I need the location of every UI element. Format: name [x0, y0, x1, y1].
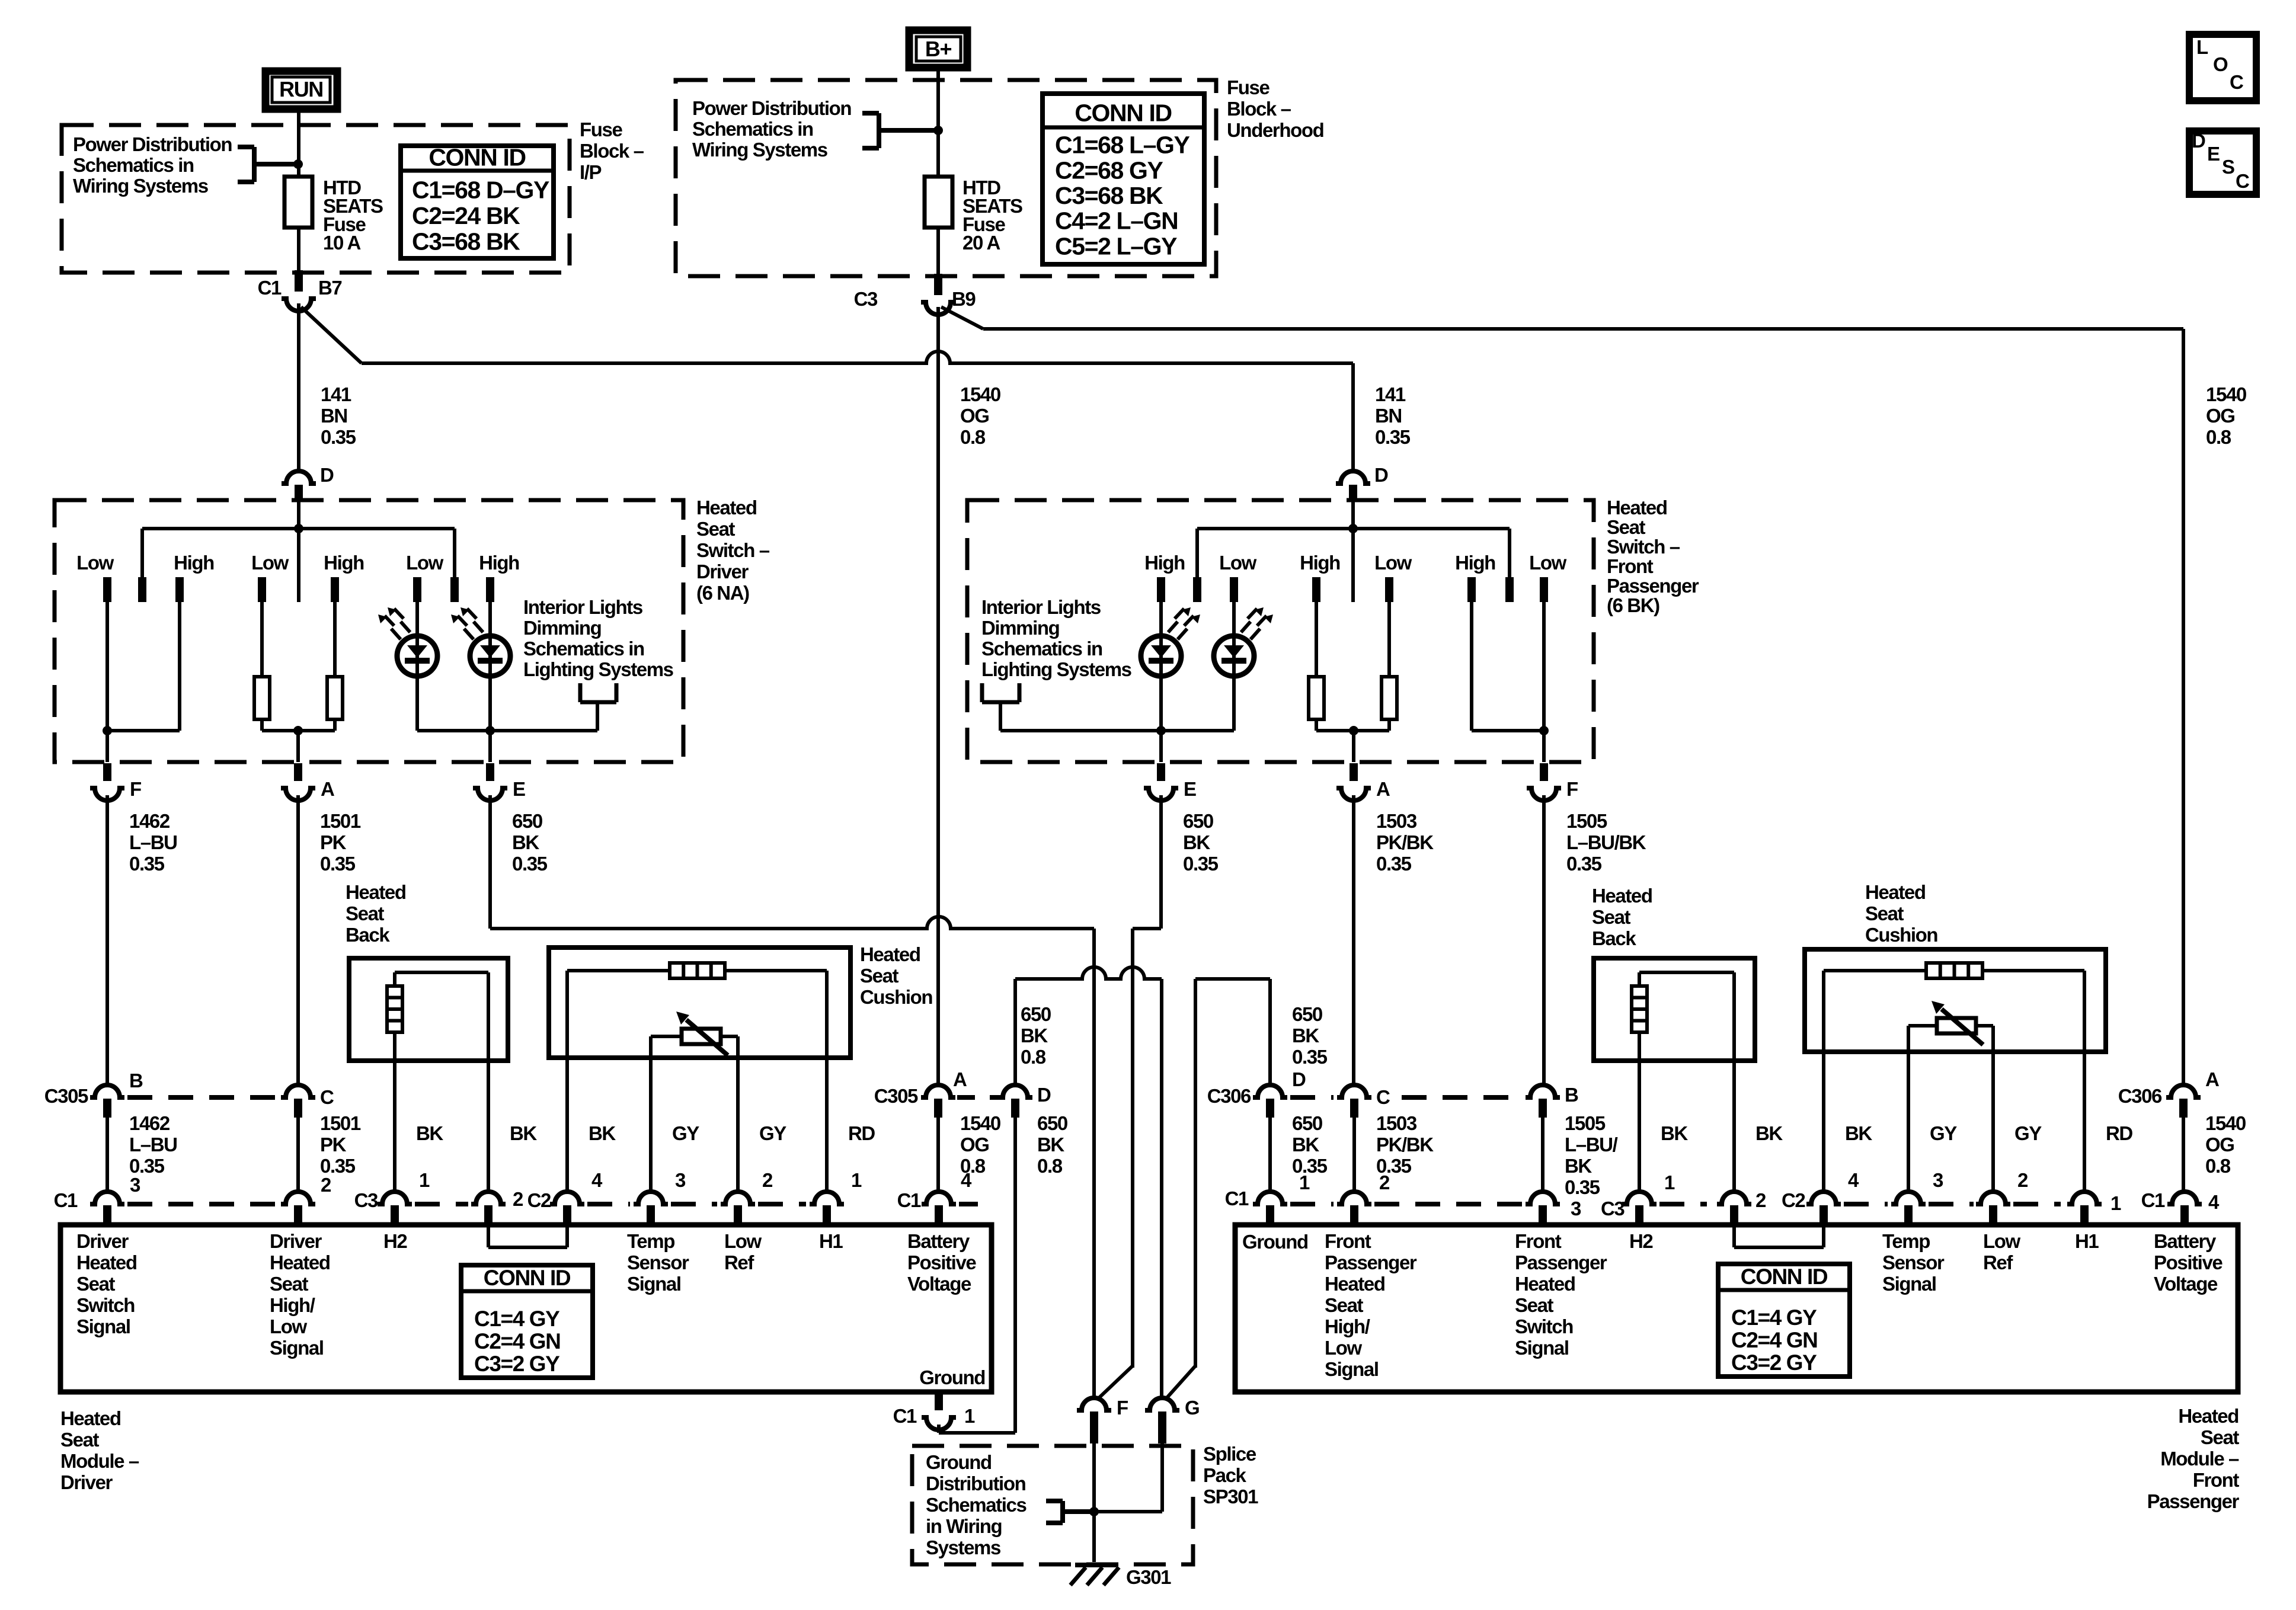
svg-text:Signal: Signal — [627, 1273, 681, 1295]
svg-text:Passenger: Passenger — [2147, 1490, 2240, 1512]
node join F (passenger) — [1539, 726, 1549, 735]
wire branch B9 diagonal — [941, 307, 983, 329]
svg-text:SP301: SP301 — [1203, 1486, 1258, 1507]
svg-text:S: S — [2222, 156, 2234, 178]
svg-text:Switch: Switch — [1515, 1315, 1573, 1337]
wire E drop (passenger) — [1159, 731, 1163, 762]
svg-text:PK: PK — [320, 1134, 347, 1156]
svg-text:C2=24 BK: C2=24 BK — [412, 202, 520, 229]
connector row passenger module cups — [1253, 1192, 1287, 1204]
bracket to power distribution note (left) — [252, 147, 257, 182]
svg-text:Signal: Signal — [1882, 1273, 1936, 1295]
connector F switch out (passenger) — [1540, 763, 1548, 781]
fuse F1 HTD SEATS 10A — [284, 177, 312, 228]
svg-text:Positive: Positive — [2154, 1251, 2223, 1273]
svg-text:20 A: 20 A — [962, 232, 1000, 254]
svg-text:Splice: Splice — [1203, 1443, 1256, 1465]
svg-text:1501: 1501 — [320, 810, 361, 832]
svg-text:BN: BN — [321, 405, 347, 427]
svg-text:O: O — [2213, 53, 2228, 75]
svg-text:Lighting Systems: Lighting Systems — [523, 658, 673, 680]
connector row driver module cups — [90, 1192, 124, 1204]
svg-text:BK: BK — [1021, 1025, 1048, 1046]
svg-text:Schematics in: Schematics in — [692, 118, 813, 140]
wire 141 BN passenger branch (horizontal) — [362, 351, 1353, 363]
svg-text:Signal: Signal — [76, 1315, 130, 1337]
svg-text:Fuse: Fuse — [580, 119, 622, 140]
wire H1 to module (driver) — [825, 1058, 829, 1191]
svg-text:Heated: Heated — [76, 1251, 137, 1273]
wire 141 BN passenger drop — [1351, 363, 1355, 471]
wire seat back H2 to module (passenger) — [1638, 1061, 1641, 1191]
svg-text:C4=2 L–GN: C4=2 L–GN — [1055, 207, 1178, 235]
wire F drop (passenger) — [1542, 731, 1546, 762]
svg-text:G301: G301 — [1126, 1566, 1171, 1588]
svg-text:Schematics in: Schematics in — [523, 638, 644, 660]
wire E drop (driver) — [488, 731, 492, 762]
node join F (driver) — [103, 726, 112, 735]
svg-text:Front: Front — [2193, 1469, 2240, 1491]
svg-text:CONN ID: CONN ID — [1075, 100, 1171, 127]
wire low ref to module (passenger) — [1991, 1052, 1995, 1191]
svg-text:Heated: Heated — [1592, 885, 1652, 907]
svg-text:1540: 1540 — [960, 383, 1000, 405]
svg-text:F: F — [1566, 778, 1578, 800]
switch contact stubs (passenger) — [1157, 577, 1165, 602]
wire 650 BK from C305 D down — [1013, 1118, 1017, 1433]
heating element seat cushion (passenger) — [1926, 963, 1982, 978]
svg-text:Systems: Systems — [926, 1537, 1000, 1558]
svg-text:Interior Lights: Interior Lights — [523, 596, 642, 618]
svg-text:B: B — [129, 1070, 143, 1092]
svg-text:CONN ID: CONN ID — [484, 1266, 571, 1290]
svg-text:C306: C306 — [2118, 1085, 2162, 1107]
wire 1540 OG to driver module — [936, 1118, 940, 1191]
svg-text:Block –: Block – — [580, 140, 644, 162]
svg-text:PK: PK — [320, 831, 347, 853]
svg-text:1540: 1540 — [2205, 1112, 2246, 1134]
wire 650 BK passenger switch ground — [1159, 795, 1163, 929]
heated seat cushion box (driver) — [549, 948, 850, 1058]
svg-text:650: 650 — [1183, 810, 1213, 832]
connector C306 pin C — [1337, 1085, 1371, 1097]
svg-text:High: High — [174, 552, 214, 574]
connector D (heated seat switch driver) — [282, 471, 316, 484]
svg-text:Seat: Seat — [860, 965, 899, 987]
wire contact 5 to join (passenger) — [1470, 602, 1473, 731]
svg-text:in Wiring: in Wiring — [926, 1515, 1002, 1537]
wire 1462 to module — [105, 1118, 109, 1191]
svg-text:C1: C1 — [897, 1189, 921, 1211]
svg-text:C: C — [2236, 170, 2249, 192]
svg-text:Low: Low — [76, 552, 114, 574]
wire contact 6 (driver high LED) — [488, 602, 492, 636]
bracket interior lights dimming (driver) — [578, 683, 583, 702]
svg-text:C1: C1 — [54, 1189, 78, 1211]
svg-text:Seat: Seat — [60, 1429, 100, 1451]
svg-text:C3: C3 — [854, 288, 878, 310]
svg-text:Low: Low — [1325, 1337, 1363, 1359]
svg-text:H2: H2 — [383, 1230, 407, 1252]
wire 1540 OG passenger drop (right edge) — [2182, 329, 2185, 1085]
wire A drop (driver) — [296, 731, 300, 762]
wire join E (driver) — [417, 729, 597, 732]
svg-text:0.35: 0.35 — [512, 853, 548, 875]
svg-text:Back: Back — [1592, 927, 1636, 949]
svg-text:C3=68 BK: C3=68 BK — [412, 228, 520, 255]
wire 1540 OG to passenger module — [2182, 1118, 2185, 1191]
svg-text:C5=2 L–GY: C5=2 L–GY — [1055, 232, 1177, 260]
svg-text:D: D — [1292, 1068, 1306, 1090]
svg-text:C3=2 GY: C3=2 GY — [1731, 1350, 1817, 1375]
svg-text:G: G — [1185, 1397, 1199, 1419]
svg-text:C: C — [320, 1086, 334, 1108]
svg-text:High/: High/ — [1325, 1315, 1370, 1337]
node join A (passenger) — [1349, 726, 1358, 735]
svg-text:C1: C1 — [1225, 1188, 1249, 1209]
connector A switch out (driver) — [294, 763, 302, 781]
connector C305 pin B — [90, 1085, 124, 1097]
svg-text:0.8: 0.8 — [1037, 1155, 1063, 1177]
svg-text:Heated: Heated — [696, 497, 757, 518]
svg-text:1503: 1503 — [1376, 1112, 1417, 1134]
svg-text:C2=4 GN: C2=4 GN — [474, 1329, 560, 1353]
svg-text:F: F — [1117, 1397, 1128, 1419]
svg-text:0.35: 0.35 — [1565, 1176, 1600, 1198]
LED driver low indicator — [397, 636, 437, 676]
svg-text:L–BU: L–BU — [129, 1134, 177, 1156]
wire 650 module D horizontal (driver) — [1015, 967, 1162, 979]
svg-text:C1=68 D–GY: C1=68 D–GY — [412, 177, 549, 204]
wire 1501 PK (driver) — [296, 795, 300, 1085]
svg-text:C3: C3 — [354, 1189, 378, 1211]
node switch bus junction (driver) — [294, 524, 303, 533]
svg-text:Seat: Seat — [1515, 1294, 1554, 1316]
wire 650 passenger module loop — [1268, 979, 1272, 1085]
svg-text:Power Distribution: Power Distribution — [692, 97, 851, 119]
svg-text:C2=68 GY: C2=68 GY — [1055, 156, 1163, 184]
wire cushion loop (driver) — [567, 969, 670, 972]
svg-text:2: 2 — [321, 1174, 331, 1196]
wire contact 6 to join (passenger) — [1542, 602, 1546, 731]
wire switch pole feed (passenger) — [1351, 500, 1355, 602]
heating element seat back (passenger) — [1632, 986, 1647, 1032]
svg-text:4: 4 — [2208, 1191, 2220, 1213]
svg-text:B7: B7 — [318, 277, 341, 299]
svg-text:0.35: 0.35 — [1376, 853, 1412, 875]
svg-text:Cushion: Cushion — [860, 986, 932, 1008]
svg-text:L: L — [2196, 36, 2208, 58]
svg-text:E: E — [1184, 778, 1196, 800]
LOC reference box — [2189, 34, 2256, 101]
svg-text:Interior Lights: Interior Lights — [981, 596, 1101, 618]
fuse block I/P dashed box — [62, 125, 570, 273]
svg-text:GY: GY — [1930, 1122, 1957, 1144]
svg-text:A: A — [1376, 778, 1390, 800]
svg-text:Battery: Battery — [907, 1230, 970, 1252]
svg-text:Switch –: Switch – — [696, 539, 770, 561]
svg-text:1505: 1505 — [1565, 1112, 1606, 1134]
svg-text:Seat: Seat — [1592, 906, 1631, 928]
conn id table (fuse block underhood) — [1043, 94, 1204, 264]
wire 1505 L-BU/BK (passenger) — [1542, 795, 1546, 1085]
svg-text:B+: B+ — [925, 37, 952, 61]
wire 1540 OG driver feed (B9 down to C305 A) — [936, 307, 940, 1085]
svg-text:1540: 1540 — [960, 1112, 1000, 1134]
wire element low side (passenger back) — [1638, 1032, 1641, 1061]
svg-text:3: 3 — [1571, 1198, 1581, 1219]
bracket ground distribution note — [1060, 1501, 1065, 1523]
svg-text:Ground: Ground — [919, 1366, 985, 1388]
svg-text:Low: Low — [1219, 552, 1257, 574]
svg-text:I/P: I/P — [580, 161, 602, 183]
heated seat switch passenger dashed box — [967, 500, 1594, 762]
svg-text:Heated: Heated — [1607, 497, 1667, 518]
svg-text:Sensor: Sensor — [627, 1251, 689, 1273]
wire seat back return to module — [487, 1061, 490, 1191]
svg-text:BK: BK — [1183, 831, 1210, 853]
svg-text:10 A: 10 A — [323, 232, 360, 254]
svg-text:D: D — [1037, 1084, 1051, 1106]
svg-text:2: 2 — [513, 1188, 523, 1210]
wire B+ to HTD SEATS fuse 2 — [936, 71, 940, 178]
DESC reference box — [2189, 131, 2256, 194]
svg-text:Seat: Seat — [2201, 1426, 2240, 1448]
svg-text:2: 2 — [1379, 1172, 1390, 1193]
svg-text:1: 1 — [851, 1169, 862, 1191]
wire element low side (driver back) — [393, 1032, 396, 1061]
connector F splice pack — [1077, 1398, 1111, 1410]
wire thermistor legs (driver) — [651, 1035, 682, 1038]
svg-text:Back: Back — [346, 924, 390, 946]
svg-text:Low: Low — [270, 1315, 308, 1337]
heated seat back box (passenger) — [1594, 958, 1755, 1061]
connector C305 pin A — [921, 1085, 955, 1097]
wire temp sensor signal to module — [649, 1058, 653, 1191]
svg-text:BK: BK — [510, 1122, 537, 1144]
node junction on B+ feed — [933, 126, 943, 135]
wire contact 4 (driver high) — [333, 602, 337, 677]
svg-text:Passenger: Passenger — [1515, 1251, 1607, 1273]
svg-text:0.35: 0.35 — [1292, 1046, 1328, 1068]
wire 1501 to module — [296, 1118, 300, 1191]
svg-text:650: 650 — [512, 810, 542, 832]
wire 650 passenger module diag to splice G — [1165, 1366, 1195, 1400]
node junction on RUN feed — [293, 159, 303, 169]
svg-text:0.8: 0.8 — [1021, 1046, 1046, 1068]
svg-text:Low: Low — [251, 552, 289, 574]
svg-text:650: 650 — [1292, 1003, 1322, 1025]
svg-text:L–BU/: L–BU/ — [1565, 1134, 1618, 1156]
heating element seat back (driver) — [387, 986, 402, 1032]
svg-text:PK/BK: PK/BK — [1376, 1134, 1434, 1156]
svg-text:High/: High/ — [270, 1294, 315, 1316]
conn id table (driver module) — [461, 1265, 593, 1378]
connector C3-B9 (fuse block underhood) — [934, 274, 942, 295]
jumper H2 loop inside driver module — [487, 1225, 490, 1247]
svg-text:PK/BK: PK/BK — [1376, 831, 1434, 853]
connector G splice pack — [1145, 1398, 1179, 1410]
wire thermistor legs (passenger) — [1908, 1024, 1937, 1028]
heated seat cushion box (passenger) — [1805, 949, 2106, 1052]
wire 650 driver ground drop to splice F — [1092, 929, 1096, 1400]
svg-text:Switch: Switch — [76, 1294, 135, 1316]
svg-text:C: C — [2230, 71, 2243, 93]
svg-text:High: High — [1455, 552, 1495, 574]
LED passenger high indicator — [1141, 636, 1181, 676]
heating element seat cushion (driver) — [670, 963, 725, 978]
svg-text:2: 2 — [1755, 1189, 1766, 1211]
svg-text:C1: C1 — [2141, 1189, 2165, 1211]
connector A switch out (passenger) — [1350, 763, 1358, 781]
connector C306 pin D — [1253, 1085, 1287, 1097]
dash line C305 B-C — [127, 1095, 277, 1100]
svg-text:Heated: Heated — [1865, 881, 1926, 903]
switch contact stubs (driver) — [103, 577, 111, 602]
wire join A (driver) — [262, 729, 335, 732]
svg-text:L–BU: L–BU — [129, 831, 177, 853]
LED driver high indicator — [470, 636, 510, 676]
svg-text:GY: GY — [759, 1122, 786, 1144]
svg-text:Seat: Seat — [1607, 516, 1646, 538]
heated seat module front passenger box — [1235, 1225, 2238, 1392]
connector C306 pin A — [2166, 1085, 2201, 1097]
wire seat back return to module (passenger) — [1732, 1061, 1736, 1191]
svg-text:2: 2 — [762, 1169, 773, 1191]
wire 650 BK driver switch ground — [488, 795, 492, 929]
svg-text:0.35: 0.35 — [1183, 853, 1219, 875]
svg-text:0.8: 0.8 — [960, 426, 986, 448]
svg-text:Signal: Signal — [1515, 1337, 1569, 1359]
svg-text:141: 141 — [1375, 383, 1406, 405]
wire contact 1 (passenger high LED) — [1159, 602, 1163, 636]
svg-text:BK: BK — [1292, 1025, 1319, 1046]
wire 650 driver switch ground horizontal — [490, 917, 1094, 929]
svg-text:Seat: Seat — [270, 1273, 309, 1295]
svg-text:1505: 1505 — [1566, 810, 1607, 832]
svg-text:Positive: Positive — [907, 1251, 976, 1273]
wire contact 5 (driver low LED) — [415, 602, 419, 636]
svg-text:L–BU/BK: L–BU/BK — [1566, 831, 1646, 853]
svg-text:Cushion: Cushion — [1865, 924, 1937, 946]
svg-text:Power Distribution: Power Distribution — [73, 133, 232, 155]
svg-text:Module –: Module – — [2160, 1448, 2239, 1470]
svg-text:BK: BK — [1037, 1134, 1064, 1156]
svg-text:650: 650 — [1292, 1112, 1322, 1134]
wire join F (passenger) — [1472, 729, 1544, 732]
wire contact 1 to join (driver low) — [105, 602, 109, 731]
wire 1505 to module — [1541, 1118, 1544, 1191]
wire seat back loop (driver) — [393, 972, 396, 986]
wire cushion pin4 to module (passenger) — [1822, 1052, 1825, 1191]
wire 1540 OG passenger branch (horizontal) — [983, 327, 2183, 331]
wire contact 2 to join (driver high) — [178, 602, 181, 731]
wire 1503 PK/BK (passenger) — [1352, 795, 1355, 1085]
svg-text:BK: BK — [1565, 1155, 1592, 1177]
ground symbol G301 — [1075, 1563, 1117, 1567]
svg-text:Seat: Seat — [1865, 902, 1904, 924]
svg-text:A: A — [2205, 1068, 2219, 1090]
svg-text:C3: C3 — [1601, 1198, 1625, 1219]
svg-text:C1: C1 — [258, 277, 282, 299]
svg-text:Ground: Ground — [1242, 1231, 1308, 1253]
svg-text:OG: OG — [2206, 405, 2235, 427]
svg-text:Driver: Driver — [60, 1471, 113, 1493]
heated seat module driver box — [60, 1225, 992, 1392]
svg-text:High: High — [1300, 552, 1340, 574]
svg-text:1: 1 — [419, 1169, 430, 1191]
svg-text:2: 2 — [2017, 1169, 2028, 1191]
node join A (driver) — [293, 726, 303, 735]
svg-text:Driver: Driver — [76, 1230, 129, 1252]
svg-text:BK: BK — [1845, 1122, 1872, 1144]
conn id table (fuse block I/P) — [401, 146, 554, 258]
svg-text:Ref: Ref — [724, 1251, 754, 1273]
wire 1462 L-BU (driver) — [105, 795, 109, 1085]
svg-text:Module –: Module – — [60, 1450, 139, 1472]
dash line C306 D-C — [1290, 1095, 1334, 1100]
dash line driver module row — [127, 1202, 277, 1206]
svg-text:GY: GY — [672, 1122, 699, 1144]
svg-text:CONN ID: CONN ID — [428, 144, 525, 171]
svg-text:Heated: Heated — [860, 943, 920, 965]
svg-text:OG: OG — [960, 1134, 989, 1156]
svg-text:E: E — [513, 778, 525, 800]
svg-text:Low: Low — [1529, 552, 1567, 574]
svg-text:Schematics in: Schematics in — [981, 638, 1102, 660]
node splice junction — [1089, 1507, 1099, 1516]
wire low ref to module — [736, 1058, 740, 1191]
svg-text:RD: RD — [2106, 1122, 2132, 1144]
svg-text:1: 1 — [1299, 1172, 1310, 1193]
svg-text:0.35: 0.35 — [320, 853, 356, 875]
svg-text:RD: RD — [848, 1122, 875, 1144]
svg-text:BK: BK — [416, 1122, 443, 1144]
svg-text:Schematics: Schematics — [926, 1494, 1026, 1516]
wire join F (driver) — [107, 729, 180, 732]
svg-text:Driver: Driver — [696, 561, 749, 582]
svg-text:BK: BK — [589, 1122, 616, 1144]
svg-text:C3=68 BK: C3=68 BK — [1055, 182, 1163, 209]
svg-text:3: 3 — [130, 1174, 140, 1196]
svg-text:D: D — [320, 464, 334, 486]
svg-text:Front: Front — [1325, 1230, 1371, 1252]
svg-text:OG: OG — [2205, 1134, 2234, 1156]
svg-text:B9: B9 — [952, 288, 976, 310]
svg-text:High: High — [1144, 552, 1185, 574]
svg-text:C1=68 L–GY: C1=68 L–GY — [1055, 132, 1189, 159]
connector C305 pin D — [998, 1085, 1032, 1097]
switch bus bar (driver) — [142, 527, 455, 530]
svg-text:A: A — [321, 778, 334, 800]
wire fuse 1 to box edge — [297, 228, 300, 274]
svg-text:D: D — [2192, 130, 2205, 152]
power node RUN (ignition feed box) — [266, 71, 337, 109]
svg-text:BK: BK — [1661, 1122, 1688, 1144]
svg-text:Block –: Block – — [1227, 98, 1291, 120]
svg-text:B: B — [1565, 1084, 1578, 1106]
svg-text:0.35: 0.35 — [1375, 426, 1411, 448]
wire 650 passenger diag to splice F — [1097, 1366, 1133, 1400]
svg-text:1: 1 — [964, 1405, 975, 1427]
svg-text:Heated: Heated — [2178, 1405, 2239, 1427]
svg-text:Battery: Battery — [2154, 1230, 2217, 1252]
svg-text:C2=4 GN: C2=4 GN — [1731, 1328, 1817, 1352]
svg-text:Seat: Seat — [1325, 1294, 1364, 1316]
wire splice G down — [1160, 1443, 1164, 1512]
svg-text:C305: C305 — [44, 1085, 88, 1107]
svg-text:RUN: RUN — [279, 77, 323, 101]
